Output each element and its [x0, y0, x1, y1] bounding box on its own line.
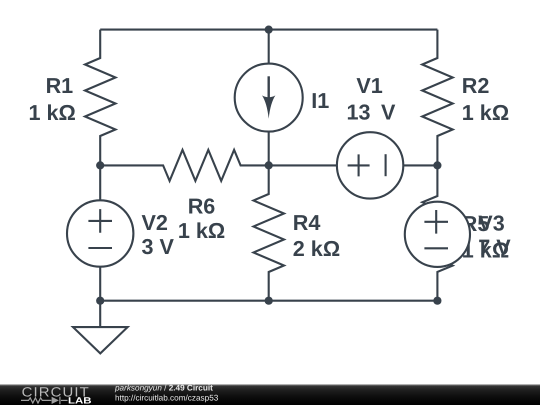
resistor R5	[422, 165, 452, 300]
svg-text:R4: R4	[293, 210, 321, 235]
logo CircuitLab	[21, 385, 92, 405]
node top center	[265, 26, 273, 34]
svg-text:R1: R1	[46, 73, 74, 98]
current source I1	[235, 30, 303, 166]
svg-text:I1: I1	[311, 88, 329, 113]
svg-text:V2: V2	[142, 210, 168, 235]
svg-text:7 V: 7 V	[478, 234, 511, 259]
node bottom right	[433, 297, 441, 305]
node A left middle	[96, 161, 104, 169]
node bottom left	[96, 297, 104, 305]
svg-text:R2: R2	[462, 73, 490, 98]
svg-text:V: V	[381, 100, 396, 125]
voltage source V2	[67, 165, 133, 300]
resistor R2	[422, 30, 453, 166]
svg-text:V3: V3	[478, 210, 504, 235]
label R5 (partly hidden behind V3 circle)	[462, 211, 509, 262]
svg-text:3 V: 3 V	[142, 234, 175, 259]
node bottom center	[265, 297, 273, 305]
svg-text:2 kΩ: 2 kΩ	[293, 236, 340, 261]
resistor R1	[85, 30, 116, 166]
resistor R4	[254, 165, 285, 300]
svg-text:parksongyun / 2.49 Circuit: parksongyun / 2.49 Circuit	[114, 384, 213, 393]
ground	[73, 301, 128, 354]
voltage source V3	[405, 202, 470, 267]
wire top rail	[100, 29, 437, 31]
svg-text:V1: V1	[356, 73, 382, 98]
svg-text:LAB: LAB	[68, 395, 92, 405]
resistor R6	[133, 150, 269, 181]
svg-text:R6: R6	[188, 193, 216, 218]
node B center middle	[265, 161, 273, 169]
svg-text:http://circuitlab.com/czasp53: http://circuitlab.com/czasp53	[115, 394, 219, 403]
footer credit text	[114, 384, 219, 403]
wire middle rail left	[100, 164, 133, 166]
svg-text:13: 13	[347, 100, 371, 125]
svg-text:1 kΩ: 1 kΩ	[462, 100, 509, 125]
node C right middle	[433, 161, 441, 169]
wire bottom rail	[100, 300, 437, 302]
svg-text:1 kΩ: 1 kΩ	[178, 218, 225, 243]
svg-text:1 kΩ: 1 kΩ	[28, 100, 75, 125]
voltage source V1	[269, 132, 438, 198]
